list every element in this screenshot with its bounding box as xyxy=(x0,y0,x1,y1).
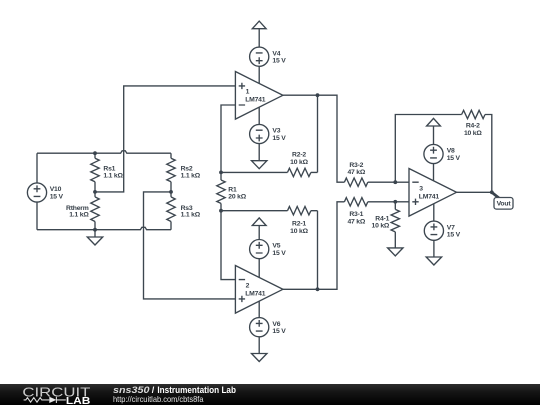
svg-text:47 kΩ: 47 kΩ xyxy=(347,169,365,176)
node op-amp1 output xyxy=(316,93,320,97)
svg-text:V10: V10 xyxy=(50,186,62,193)
wire Rs1 junction to op-amp1 non-inverting input xyxy=(95,86,235,192)
svg-text:V5: V5 xyxy=(272,243,280,250)
wire backbone to op-amp2 inverting input xyxy=(221,211,235,280)
wire R2-2 row xyxy=(221,95,318,172)
node op-amp3 inverting input xyxy=(393,180,397,184)
wire R3-1 to op-amp3 non-inverting input xyxy=(395,201,409,203)
svg-text:V6: V6 xyxy=(272,321,280,328)
voltage source V3 xyxy=(250,124,287,143)
svg-text:1.1 kΩ: 1.1 kΩ xyxy=(103,172,123,179)
ground under V3 xyxy=(252,161,267,169)
wire V4 to op-amp1 V+ xyxy=(258,66,260,83)
resistor R3-1 xyxy=(344,198,395,226)
node Rs1 top xyxy=(93,151,97,155)
op-amp U3 LM741 xyxy=(409,169,457,217)
svg-text:20 kΩ: 20 kΩ xyxy=(228,194,246,201)
wire bottom rail with hop xyxy=(37,227,171,229)
svg-text:http://circuitlab.com/cbts8fa: http://circuitlab.com/cbts8fa xyxy=(113,394,204,404)
op-amp U2 LM741 xyxy=(235,266,283,314)
node Rs1 bottom xyxy=(93,190,97,194)
voltage source V7 xyxy=(424,221,460,240)
svg-text:R3-2: R3-2 xyxy=(349,162,363,169)
power flag above V4 xyxy=(252,21,266,47)
node op-amp3 non-inverting input xyxy=(393,200,397,204)
svg-text:Vout: Vout xyxy=(497,201,512,208)
logo resistor-diode glyph xyxy=(24,397,66,403)
svg-text:1: 1 xyxy=(246,88,250,95)
svg-text:V7: V7 xyxy=(447,224,455,231)
resistor Rtherm xyxy=(66,192,99,230)
voltage source V4 xyxy=(250,47,287,66)
wire V8 to op-amp3 V+ xyxy=(433,164,435,181)
wire feedback up and over R4-2 xyxy=(395,115,492,193)
svg-text:15 V: 15 V xyxy=(272,328,286,335)
wire V7 to ground xyxy=(433,240,435,257)
svg-text:10 kΩ: 10 kΩ xyxy=(372,223,390,230)
svg-text:47 kΩ: 47 kΩ xyxy=(347,218,365,225)
voltage source V8 xyxy=(424,144,461,163)
svg-text:15 V: 15 V xyxy=(272,250,286,257)
resistor R2-2 xyxy=(288,152,311,177)
svg-text:R3-1: R3-1 xyxy=(349,211,363,218)
power flag above V8 xyxy=(427,118,441,144)
voltage source V6 xyxy=(250,318,287,337)
ground under left rail xyxy=(87,230,102,245)
svg-text:2: 2 xyxy=(246,283,250,290)
svg-text:LM741: LM741 xyxy=(245,290,266,297)
node output Vout xyxy=(490,190,494,194)
wire R3-2 to op-amp3 inverting input xyxy=(395,181,409,183)
resistor R4-2 xyxy=(462,110,485,137)
resistor R3-2 xyxy=(344,162,395,187)
wire left vertical to V10 xyxy=(36,153,38,230)
svg-text:1.1 kΩ: 1.1 kΩ xyxy=(181,172,201,179)
flag Vout xyxy=(492,192,513,209)
ground under R4-1 xyxy=(388,248,403,256)
svg-text:15 V: 15 V xyxy=(272,58,286,65)
wire R2-1 row xyxy=(221,211,318,290)
node backbone R2-2 xyxy=(219,171,223,175)
wire op-amp1 output to R3-2 xyxy=(283,95,345,182)
node ground rail xyxy=(93,228,97,232)
resistor Rs3 xyxy=(167,192,201,230)
svg-text:V3: V3 xyxy=(272,128,280,135)
resistor R2-1 xyxy=(288,207,311,235)
svg-text:15 V: 15 V xyxy=(447,232,461,239)
wire op-amp1 V- to V3 xyxy=(258,107,260,161)
wire V6 to ground xyxy=(258,337,260,354)
svg-text:V8: V8 xyxy=(447,148,455,155)
op-amp U1 LM741 xyxy=(235,72,283,120)
svg-text:1.1 kΩ: 1.1 kΩ xyxy=(181,212,201,219)
node Rs2/Rs3 xyxy=(169,190,173,194)
resistor R1 xyxy=(217,172,247,210)
ground under V7 xyxy=(426,257,441,265)
svg-text:1.1 kΩ: 1.1 kΩ xyxy=(69,212,89,219)
svg-text:10 kΩ: 10 kΩ xyxy=(290,159,308,166)
svg-text:R2-2: R2-2 xyxy=(292,152,306,159)
wire top rail with hop xyxy=(37,151,171,153)
svg-text:15 V: 15 V xyxy=(272,135,286,142)
node backbone R2-1 xyxy=(219,209,223,213)
svg-text:V4: V4 xyxy=(272,50,280,57)
wire op-amp2 V- to V6 xyxy=(258,301,260,317)
svg-text:R2-1: R2-1 xyxy=(292,221,306,228)
svg-text:R4-2: R4-2 xyxy=(466,123,480,130)
resistor R4-1 xyxy=(372,202,400,248)
svg-text:15 V: 15 V xyxy=(447,155,461,162)
footer bar xyxy=(0,384,540,405)
ground under V6 xyxy=(252,354,267,362)
voltage source V10 xyxy=(27,183,63,202)
svg-text:10 kΩ: 10 kΩ xyxy=(464,130,482,137)
svg-text:R1: R1 xyxy=(228,186,237,193)
svg-text:3: 3 xyxy=(419,185,423,192)
wire op-amp3 V- to V7 xyxy=(433,204,435,221)
resistor Rs1 xyxy=(91,153,124,192)
wire op-amp3 output xyxy=(457,191,492,193)
svg-text:LAB: LAB xyxy=(66,396,91,405)
svg-text:LM741: LM741 xyxy=(419,193,440,200)
svg-text:15 V: 15 V xyxy=(50,193,64,200)
svg-text:LM741: LM741 xyxy=(245,96,266,103)
svg-text:10 kΩ: 10 kΩ xyxy=(290,228,308,235)
wire op-amp2 output to R3-1 xyxy=(283,202,345,289)
wire Rs2/Rs3 junction to op-amp2 non-inverting input xyxy=(144,192,236,299)
wire op-amp1 inverting input to backbone xyxy=(221,105,235,172)
resistor Rs2 xyxy=(167,153,201,192)
voltage source V5 xyxy=(250,240,287,259)
node op-amp2 output xyxy=(316,287,320,291)
wire V5 to op-amp2 V+ xyxy=(258,259,260,278)
power flag above V5 xyxy=(252,218,266,240)
